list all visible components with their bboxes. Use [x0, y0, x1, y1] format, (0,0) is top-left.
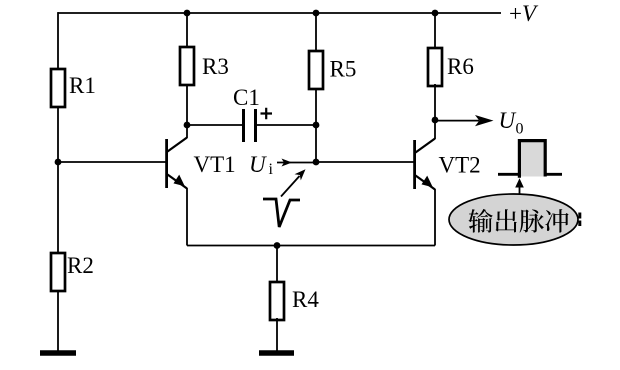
wire R3 to collector node	[186, 85, 188, 125]
ellipse right edge nubs	[578, 213, 581, 227]
svg-text:R2: R2	[67, 253, 94, 278]
node R4 junction	[274, 242, 281, 249]
svg-text:+V: +V	[509, 1, 539, 26]
wire rail to R6	[434, 13, 436, 49]
node rail-R5	[313, 10, 320, 17]
wire R6 to U0 node	[434, 84, 436, 120]
wire C1 right lead	[257, 124, 316, 126]
output waveform axis right	[545, 173, 562, 176]
resistor R2	[51, 253, 65, 291]
resistor R4	[270, 282, 284, 320]
svg-text:U: U	[249, 152, 267, 177]
resistor R1	[51, 69, 65, 107]
ground middle	[259, 350, 294, 356]
wire rail to R3	[186, 13, 188, 48]
node C1 right	[313, 122, 320, 129]
resistor R5	[309, 51, 323, 89]
wire R1 to R2	[57, 107, 59, 253]
wire VT1 base	[58, 161, 166, 163]
wire R5 to Ui node	[315, 89, 317, 162]
transistor VT2	[413, 120, 435, 190]
svg-text:VT2: VT2	[439, 153, 481, 178]
wire R2 to ground	[57, 290, 59, 353]
callout ellipse (output pulse)	[449, 194, 578, 245]
output pulse outline	[519, 141, 545, 178]
wire rail down to R1	[57, 12, 59, 70]
capacitor C1	[244, 109, 256, 142]
svg-text:R4: R4	[292, 287, 319, 312]
node rail-R6	[432, 10, 439, 17]
svg-text:VT1: VT1	[194, 152, 236, 177]
wire VT2 base	[316, 161, 414, 163]
transistor VT1	[165, 125, 187, 189]
svg-text:R5: R5	[330, 57, 357, 82]
wire rail to R5	[315, 13, 317, 52]
resistor R6	[428, 48, 442, 86]
wire VT1 emitter down	[186, 188, 188, 246]
svg-text:i: i	[269, 161, 274, 178]
label 输出脉冲	[468, 209, 568, 233]
output waveform axis left	[498, 173, 520, 176]
svg-text:C1: C1	[233, 85, 260, 110]
wire U0 arrow	[435, 115, 494, 126]
node Ui input	[313, 159, 320, 166]
input trigger spike waveform	[263, 199, 300, 227]
svg-text:U: U	[499, 108, 517, 133]
output pulse fill	[521, 142, 544, 177]
wire VT2 emitter down	[434, 189, 436, 246]
node U0 output	[432, 117, 439, 124]
wire C1 left lead	[187, 124, 242, 126]
svg-text:R1: R1	[69, 73, 96, 98]
wire +V top rail	[58, 12, 501, 14]
wire bottom emitter common	[187, 245, 435, 247]
arrow callout to waveform	[515, 178, 524, 194]
node R1-R2 base junction	[55, 159, 62, 166]
svg-text:R6: R6	[447, 54, 474, 79]
arrow from spike to Ui node	[281, 169, 306, 196]
wire node to R4	[276, 246, 278, 284]
ground left	[40, 350, 76, 356]
wire Ui arrow	[277, 159, 316, 167]
resistor R3	[180, 47, 194, 85]
svg-text:0: 0	[516, 121, 524, 138]
node VT1 collector / C1 left	[184, 122, 191, 129]
polarity plus of C1	[261, 108, 273, 120]
wire R4 to ground	[276, 318, 278, 353]
svg-text:R3: R3	[202, 54, 229, 79]
node rail-R3	[184, 10, 191, 17]
